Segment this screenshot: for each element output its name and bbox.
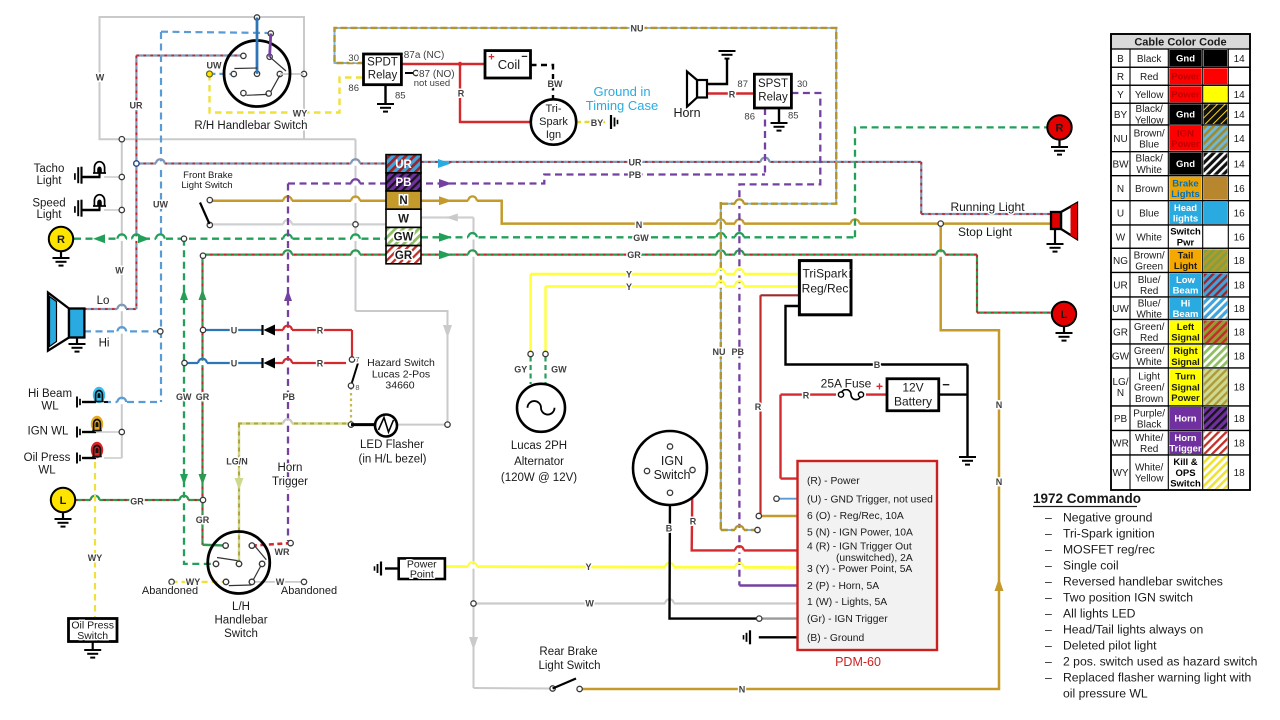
- svg-text:Abandoned: Abandoned: [281, 585, 337, 597]
- svg-text:L: L: [60, 495, 67, 507]
- svg-text:Horn: Horn: [278, 462, 303, 474]
- svg-text:–: –: [1045, 575, 1052, 589]
- svg-text:87: 87: [737, 79, 748, 90]
- svg-text:Black/: Black/: [1136, 154, 1163, 165]
- svg-text:N: N: [996, 400, 1003, 410]
- svg-text:Switch: Switch: [77, 630, 108, 642]
- svg-text:Gnd: Gnd: [1176, 110, 1195, 121]
- svg-text:White: White: [1136, 309, 1162, 320]
- svg-text:Gnd: Gnd: [1176, 159, 1195, 170]
- svg-text:GY: GY: [514, 365, 527, 375]
- svg-text:W: W: [96, 73, 105, 83]
- svg-text:White: White: [1136, 232, 1162, 243]
- svg-text:Brown/: Brown/: [1134, 128, 1165, 139]
- svg-text:Red: Red: [1140, 72, 1158, 83]
- svg-text:2 (P) - Horn, 5A: 2 (P) - Horn, 5A: [807, 581, 879, 592]
- svg-text:U: U: [231, 359, 238, 369]
- svg-text:Stop Light: Stop Light: [958, 225, 1013, 239]
- svg-text:Running Light: Running Light: [950, 200, 1025, 214]
- svg-text:GR: GR: [196, 515, 210, 525]
- svg-text:NU: NU: [713, 347, 726, 357]
- svg-text:3 (Y) - Power Point, 5A: 3 (Y) - Power Point, 5A: [807, 564, 912, 575]
- svg-text:18: 18: [1234, 256, 1246, 267]
- svg-text:Green/: Green/: [1134, 383, 1165, 394]
- svg-text:W: W: [115, 266, 124, 276]
- svg-text:Power: Power: [1171, 72, 1200, 83]
- svg-text:Handlebar: Handlebar: [214, 615, 267, 627]
- svg-text:UR: UR: [1113, 280, 1127, 291]
- svg-text:Head: Head: [1174, 203, 1197, 214]
- svg-text:–: –: [1045, 607, 1052, 621]
- svg-text:UR: UR: [130, 101, 143, 111]
- svg-text:U: U: [1117, 208, 1124, 219]
- svg-text:Horn: Horn: [673, 106, 700, 120]
- svg-text:R: R: [690, 517, 697, 527]
- svg-text:Relay: Relay: [758, 92, 788, 104]
- svg-text:(Gr) - IGN Trigger: (Gr) - IGN Trigger: [807, 614, 888, 625]
- svg-text:Tail: Tail: [1178, 250, 1194, 261]
- svg-text:PB: PB: [1114, 414, 1128, 425]
- svg-text:Light: Light: [37, 175, 63, 187]
- svg-text:NU: NU: [1113, 134, 1127, 145]
- svg-text:–: –: [1045, 559, 1052, 573]
- svg-text:Tri-: Tri-: [545, 103, 561, 115]
- svg-text:Black: Black: [1137, 54, 1162, 65]
- svg-text:L/H: L/H: [232, 601, 250, 613]
- svg-text:N: N: [996, 477, 1003, 487]
- svg-text:Light Switch: Light Switch: [538, 660, 600, 672]
- svg-text:8: 8: [355, 383, 359, 392]
- svg-text:Switch: Switch: [224, 628, 258, 640]
- svg-text:Negative ground: Negative ground: [1063, 511, 1152, 525]
- svg-text:–: –: [1045, 511, 1052, 525]
- svg-text:N: N: [1117, 184, 1124, 195]
- svg-text:(120W @ 12V): (120W @ 12V): [501, 472, 577, 484]
- svg-text:Coil: Coil: [498, 57, 521, 72]
- svg-text:GW: GW: [1112, 352, 1130, 363]
- svg-text:Switch: Switch: [654, 468, 691, 482]
- svg-text:WY: WY: [88, 553, 103, 563]
- svg-text:WY: WY: [186, 577, 201, 587]
- svg-text:Red: Red: [1140, 444, 1158, 455]
- svg-text:Signal: Signal: [1171, 357, 1200, 368]
- svg-text:Blue/: Blue/: [1138, 275, 1161, 286]
- svg-text:–: –: [1045, 623, 1052, 637]
- svg-text:18: 18: [1234, 383, 1246, 394]
- svg-text:Spark: Spark: [539, 116, 568, 128]
- svg-text:18: 18: [1234, 352, 1246, 363]
- svg-text:Yellow: Yellow: [1135, 90, 1164, 101]
- svg-text:W: W: [398, 213, 409, 225]
- svg-text:B: B: [666, 524, 673, 534]
- svg-text:Y: Y: [1117, 90, 1124, 101]
- svg-text:Hi: Hi: [99, 338, 110, 350]
- svg-text:Timing Case: Timing Case: [586, 98, 658, 113]
- svg-text:Switch: Switch: [1170, 227, 1201, 238]
- svg-text:WL: WL: [41, 401, 59, 413]
- svg-text:Speed: Speed: [32, 198, 65, 210]
- svg-text:87a (NC): 87a (NC): [404, 50, 445, 61]
- svg-text:TriSpark: TriSpark: [803, 267, 849, 281]
- svg-text:IGN WL: IGN WL: [28, 426, 69, 438]
- svg-text:UW: UW: [207, 61, 222, 71]
- svg-text:NU: NU: [631, 24, 644, 34]
- svg-text:Cable Color Code: Cable Color Code: [1134, 37, 1226, 49]
- svg-text:oil pressure WL: oil pressure WL: [1063, 687, 1148, 701]
- svg-text:W: W: [276, 577, 285, 587]
- svg-text:PB: PB: [731, 347, 744, 357]
- svg-text:18: 18: [1234, 304, 1246, 315]
- svg-text:LED Flasher: LED Flasher: [360, 439, 424, 451]
- svg-text:18: 18: [1234, 438, 1246, 449]
- svg-text:Power: Power: [1171, 90, 1200, 101]
- svg-text:MOSFET reg/rec: MOSFET reg/rec: [1063, 543, 1155, 557]
- svg-text:UR: UR: [629, 157, 642, 167]
- svg-text:GW: GW: [633, 233, 649, 243]
- svg-text:Single coil: Single coil: [1063, 559, 1119, 573]
- svg-text:U: U: [231, 326, 238, 336]
- svg-text:Light: Light: [1174, 261, 1198, 272]
- svg-text:7: 7: [355, 355, 359, 364]
- svg-text:1 (W) - Lights, 5A: 1 (W) - Lights, 5A: [807, 597, 887, 608]
- svg-text:IGN: IGN: [661, 454, 683, 468]
- svg-text:Brown/: Brown/: [1134, 250, 1165, 261]
- svg-text:Horn: Horn: [1174, 433, 1196, 444]
- svg-text:–: –: [1045, 671, 1052, 685]
- svg-text:UW: UW: [1112, 304, 1129, 315]
- svg-text:Green/: Green/: [1134, 322, 1165, 333]
- svg-text:Hi: Hi: [1181, 298, 1191, 309]
- svg-text:IGN: IGN: [1177, 128, 1194, 139]
- svg-text:R/H Handlebar Switch: R/H Handlebar Switch: [194, 120, 307, 132]
- svg-text:18: 18: [1234, 414, 1246, 425]
- svg-text:R: R: [57, 234, 65, 246]
- svg-text:White/: White/: [1135, 463, 1164, 474]
- svg-text:R: R: [803, 391, 810, 401]
- svg-text:GR: GR: [196, 392, 210, 402]
- svg-text:Beam: Beam: [1173, 286, 1199, 297]
- svg-text:PB: PB: [282, 392, 295, 402]
- svg-text:R: R: [317, 326, 324, 336]
- svg-text:Black: Black: [1137, 419, 1162, 430]
- svg-text:Brake: Brake: [1172, 178, 1198, 189]
- svg-text:OPS: OPS: [1175, 468, 1195, 479]
- svg-text:Light: Light: [37, 209, 63, 221]
- svg-text:–: –: [1045, 591, 1052, 605]
- svg-text:All lights LED: All lights LED: [1063, 607, 1136, 621]
- svg-text:Ground in: Ground in: [593, 84, 650, 99]
- svg-text:(in H/L bezel): (in H/L bezel): [359, 454, 427, 466]
- svg-text:PB: PB: [396, 177, 412, 189]
- svg-text:GW: GW: [551, 365, 567, 375]
- svg-text:Point: Point: [410, 569, 434, 581]
- svg-text:18: 18: [1234, 468, 1246, 479]
- svg-text:(R) - Power: (R) - Power: [807, 476, 860, 487]
- svg-text:Trigger: Trigger: [1169, 444, 1202, 455]
- svg-text:Signal: Signal: [1171, 333, 1200, 344]
- svg-text:Horn: Horn: [1174, 414, 1196, 425]
- svg-text:Ign: Ign: [546, 129, 561, 141]
- svg-text:(U) - GND Trigger, not used: (U) - GND Trigger, not used: [807, 494, 933, 505]
- svg-text:14: 14: [1234, 159, 1246, 170]
- svg-text:1972 Commando: 1972 Commando: [1033, 491, 1141, 506]
- svg-text:86: 86: [744, 112, 755, 123]
- svg-text:85: 85: [788, 110, 799, 121]
- svg-text:Y: Y: [585, 562, 591, 572]
- svg-text:not used: not used: [414, 78, 450, 89]
- svg-text:–: –: [1045, 527, 1052, 541]
- svg-text:Brown: Brown: [1135, 394, 1163, 405]
- svg-text:Blue: Blue: [1139, 140, 1159, 151]
- svg-text:Beam: Beam: [1173, 309, 1199, 320]
- svg-text:6 (O) - Reg/Rec, 10A: 6 (O) - Reg/Rec, 10A: [807, 511, 904, 522]
- svg-text:85: 85: [395, 91, 406, 102]
- svg-text:Hi Beam: Hi Beam: [28, 388, 72, 400]
- svg-text:Green: Green: [1135, 262, 1163, 273]
- svg-text:16: 16: [1234, 184, 1246, 195]
- svg-text:5 (N) - IGN Power, 10A: 5 (N) - IGN Power, 10A: [807, 527, 913, 538]
- svg-text:Relay: Relay: [368, 70, 398, 82]
- svg-text:Power: Power: [1171, 139, 1200, 150]
- svg-text:30: 30: [797, 79, 808, 90]
- svg-text:Left: Left: [1177, 322, 1195, 333]
- svg-text:14: 14: [1234, 110, 1246, 121]
- svg-text:Kill &: Kill &: [1173, 457, 1197, 468]
- svg-text:WR: WR: [1112, 438, 1129, 449]
- svg-text:18: 18: [1234, 280, 1246, 291]
- svg-text:(unswitched), 2A: (unswitched), 2A: [836, 553, 913, 564]
- svg-text:Right: Right: [1173, 346, 1198, 357]
- svg-text:PB: PB: [629, 170, 642, 180]
- svg-text:Rear Brake: Rear Brake: [539, 646, 597, 658]
- svg-text:(B) - Ground: (B) - Ground: [807, 633, 864, 644]
- svg-text:Oil Press: Oil Press: [24, 452, 71, 464]
- svg-text:SPDT: SPDT: [367, 57, 398, 69]
- svg-text:N: N: [636, 220, 643, 230]
- svg-text:Trigger: Trigger: [272, 476, 308, 488]
- svg-text:Battery: Battery: [894, 395, 932, 409]
- svg-text:Y: Y: [626, 282, 632, 292]
- svg-text:L: L: [1061, 309, 1068, 321]
- svg-text:Power: Power: [1171, 393, 1200, 404]
- svg-text:25A Fuse: 25A Fuse: [821, 377, 872, 391]
- svg-text:Hazard Switch: Hazard Switch: [367, 357, 435, 369]
- svg-text:−: −: [942, 377, 950, 392]
- svg-text:W: W: [585, 599, 594, 609]
- svg-text:Pwr: Pwr: [1177, 237, 1195, 248]
- svg-text:Tri-Spark ignition: Tri-Spark ignition: [1063, 527, 1155, 541]
- svg-text:14: 14: [1234, 134, 1246, 145]
- svg-text:Lights: Lights: [1171, 189, 1200, 200]
- svg-text:N: N: [1117, 388, 1124, 399]
- svg-text:R: R: [755, 402, 762, 412]
- svg-text:–: –: [1045, 655, 1052, 669]
- svg-text:BW: BW: [548, 79, 563, 89]
- svg-text:R: R: [317, 359, 324, 369]
- svg-text:2 pos. switch used as hazard s: 2 pos. switch used as hazard switch: [1063, 655, 1257, 669]
- svg-text:Light: Light: [1138, 371, 1160, 382]
- svg-text:UW: UW: [153, 200, 168, 210]
- svg-text:N: N: [399, 195, 407, 207]
- svg-text:GR: GR: [1113, 327, 1128, 338]
- svg-text:R: R: [729, 90, 736, 100]
- svg-text:Deleted pilot light: Deleted pilot light: [1063, 639, 1157, 653]
- svg-text:Red: Red: [1140, 333, 1158, 344]
- svg-text:GR: GR: [627, 250, 641, 260]
- svg-text:PDM-60: PDM-60: [835, 655, 881, 669]
- svg-text:Turn: Turn: [1175, 372, 1196, 383]
- svg-text:Reg/Rec: Reg/Rec: [802, 282, 849, 296]
- svg-text:WY: WY: [1112, 468, 1128, 479]
- svg-text:−: −: [521, 51, 527, 63]
- svg-text:UR: UR: [395, 159, 412, 171]
- svg-text:R: R: [1117, 72, 1124, 83]
- svg-text:N: N: [739, 685, 746, 695]
- svg-text:WR: WR: [275, 547, 290, 557]
- svg-text:Alternator: Alternator: [514, 456, 564, 468]
- svg-text:LG/: LG/: [1112, 377, 1128, 388]
- svg-text:Gnd: Gnd: [1176, 54, 1195, 65]
- svg-text:–: –: [1045, 639, 1052, 653]
- svg-text:4 (R) - IGN Trigger Out: 4 (R) - IGN Trigger Out: [807, 542, 912, 553]
- svg-text:WL: WL: [38, 465, 56, 477]
- svg-text:Red: Red: [1140, 286, 1158, 297]
- svg-text:16: 16: [1234, 232, 1246, 243]
- svg-text:Green/: Green/: [1134, 346, 1165, 357]
- svg-text:Tacho: Tacho: [34, 163, 65, 175]
- svg-text:White/: White/: [1135, 433, 1164, 444]
- svg-text:BW: BW: [1112, 159, 1129, 170]
- svg-text:12V: 12V: [902, 381, 923, 395]
- svg-text:Reversed handlebar switches: Reversed handlebar switches: [1063, 575, 1223, 589]
- svg-text:Light Switch: Light Switch: [181, 180, 232, 191]
- svg-text:–: –: [1045, 543, 1052, 557]
- svg-text:Signal: Signal: [1171, 382, 1200, 393]
- svg-text:SPST: SPST: [758, 78, 788, 90]
- svg-text:Low: Low: [1176, 275, 1196, 286]
- svg-text:White: White: [1136, 357, 1162, 368]
- svg-text:B: B: [1117, 54, 1124, 65]
- svg-text:Switch: Switch: [1170, 479, 1201, 490]
- svg-text:+: +: [876, 380, 883, 394]
- svg-text:Brown: Brown: [1135, 184, 1163, 195]
- svg-text:Lo: Lo: [97, 295, 110, 307]
- svg-text:Yellow: Yellow: [1135, 474, 1164, 485]
- svg-text:Purple/: Purple/: [1133, 408, 1165, 419]
- svg-text:Blue: Blue: [1139, 208, 1159, 219]
- svg-text:White: White: [1136, 165, 1162, 176]
- svg-text:Blue/: Blue/: [1138, 298, 1161, 309]
- svg-text:BY: BY: [1114, 110, 1128, 121]
- svg-text:Two position IGN switch: Two position IGN switch: [1063, 591, 1193, 605]
- svg-text:14: 14: [1234, 90, 1246, 101]
- svg-text:BY: BY: [591, 118, 604, 128]
- svg-text:34660: 34660: [385, 380, 414, 392]
- svg-text:30: 30: [348, 53, 359, 64]
- svg-text:GW: GW: [394, 232, 414, 244]
- svg-text:LG/N: LG/N: [226, 457, 248, 467]
- svg-text:R: R: [1056, 122, 1064, 134]
- svg-text:Replaced flasher warning light: Replaced flasher warning light with: [1063, 671, 1251, 685]
- svg-text:GR: GR: [130, 497, 144, 507]
- svg-text:W: W: [1116, 232, 1126, 243]
- svg-text:NG: NG: [1113, 256, 1128, 267]
- svg-text:14: 14: [1234, 54, 1246, 65]
- svg-text:GW: GW: [176, 392, 192, 402]
- svg-text:GR: GR: [395, 250, 413, 262]
- svg-text:R: R: [458, 89, 465, 99]
- svg-text:+: +: [488, 52, 494, 64]
- svg-text:lights: lights: [1173, 214, 1198, 225]
- svg-text:86: 86: [348, 83, 359, 94]
- svg-text:B: B: [874, 360, 881, 370]
- svg-text:18: 18: [1234, 327, 1246, 338]
- svg-text:Black/: Black/: [1136, 104, 1163, 115]
- svg-text:Y: Y: [626, 270, 632, 280]
- svg-text:Head/Tail lights always on: Head/Tail lights always on: [1063, 623, 1203, 637]
- svg-text:16: 16: [1234, 208, 1246, 219]
- svg-text:WY: WY: [293, 109, 308, 119]
- svg-text:Lucas 2PH: Lucas 2PH: [511, 440, 567, 452]
